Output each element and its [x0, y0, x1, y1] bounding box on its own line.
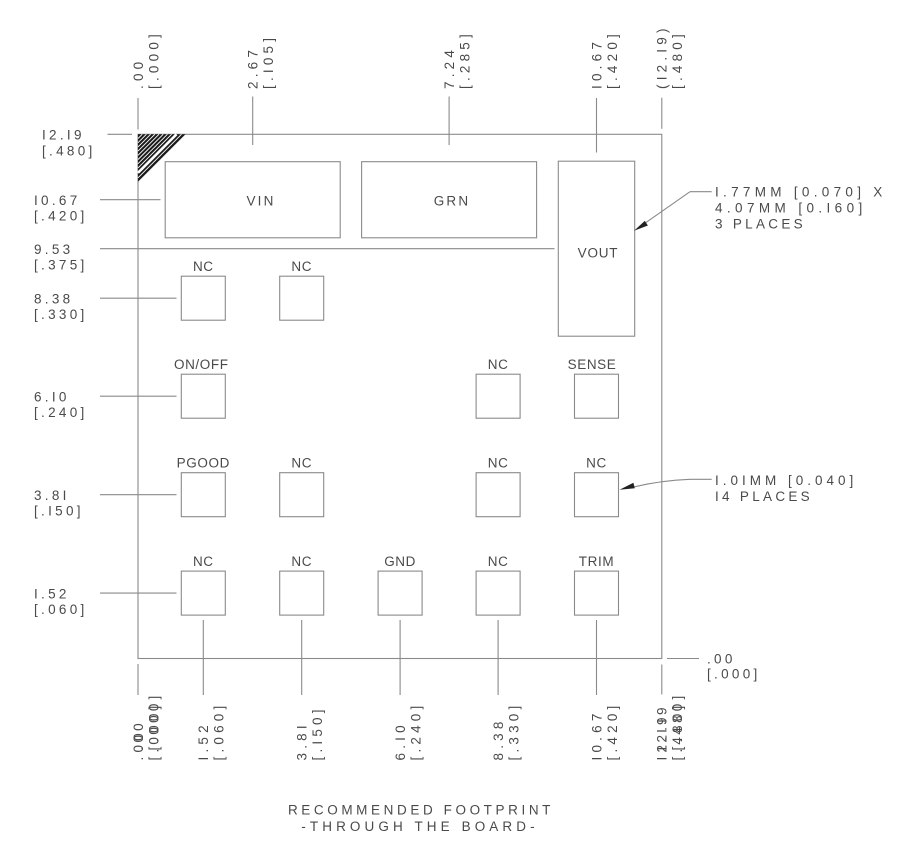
- svg-text:[.330]: [.330]: [506, 702, 521, 761]
- pad TRIM at (10.67,1.52) mm: [575, 571, 619, 615]
- svg-text:8.38: 8.38: [34, 292, 73, 307]
- svg-text:[.240]: [.240]: [408, 702, 423, 761]
- pad NC at (3.81,1.52) mm: [280, 571, 324, 615]
- svg-text:ON/OFF: ON/OFF: [174, 357, 229, 372]
- pad VIN (slot 4.07x1.77): [165, 162, 340, 238]
- pad NC at (10.67,3.81) mm: [575, 473, 619, 517]
- svg-text:SENSE: SENSE: [568, 357, 617, 372]
- svg-text:[.420]: [.420]: [34, 209, 88, 224]
- top extension tick x=2.67: [252, 97, 254, 146]
- svg-text:NC: NC: [291, 554, 312, 569]
- svg-text:I.0IMM [0.040]: I.0IMM [0.040]: [715, 473, 857, 488]
- leader arrow to VOUT slot: [634, 192, 712, 231]
- svg-text:-THROUGH THE BOARD-: -THROUGH THE BOARD-: [301, 819, 538, 834]
- svg-text:6.I0: 6.I0: [393, 721, 408, 760]
- svg-text:.00: .00: [131, 719, 146, 750]
- svg-text:NC: NC: [488, 554, 509, 569]
- svg-text:2.67: 2.67: [246, 46, 261, 89]
- svg-text:9.53: 9.53: [34, 242, 73, 257]
- svg-text:.00: .00: [707, 651, 736, 666]
- pin-1 hatched triangle marker: [138, 134, 186, 182]
- dimension line y=0 right: [667, 658, 699, 660]
- dimension line y=8.38mm: [100, 297, 177, 299]
- bottom tick x=0: [137, 664, 139, 695]
- svg-text:[.060]: [.060]: [34, 602, 88, 617]
- svg-text:NC: NC: [291, 259, 312, 274]
- svg-text:I2.I9: I2.I9: [42, 128, 85, 143]
- svg-text:[.375]: [.375]: [34, 258, 88, 273]
- svg-text:VIN: VIN: [246, 193, 275, 208]
- pad NC at (1.52,8.38) mm: [181, 276, 225, 320]
- top extension tick x=10.67: [596, 98, 598, 153]
- svg-text:[.420]: [.420]: [605, 30, 620, 89]
- svg-text:[.000]: [.000]: [146, 692, 161, 751]
- dimension line y=10.67mm: [100, 199, 161, 201]
- svg-text:VOUT: VOUT: [578, 246, 619, 261]
- dimension line y=1.52mm: [100, 592, 177, 594]
- svg-text:[.480]: [.480]: [670, 30, 685, 89]
- svg-text:[.I05]: [.I05]: [261, 34, 276, 89]
- svg-text:3 PLACES: 3 PLACES: [715, 216, 806, 231]
- board outline / footprint frame: [138, 134, 662, 658]
- svg-text:NC: NC: [193, 554, 214, 569]
- pad NC at (8.38,3.81) mm: [476, 473, 520, 517]
- dimension line y=12.19mm: [108, 133, 133, 135]
- pad ON/OFF at (1.52,6.1) mm: [181, 374, 225, 418]
- svg-text:NC: NC: [586, 456, 607, 471]
- pad PGOOD at (1.52,3.81) mm: [181, 473, 225, 517]
- svg-text:[.240]: [.240]: [34, 405, 88, 420]
- svg-text:[.000]: [.000]: [707, 667, 761, 682]
- svg-text:[.285]: [.285]: [457, 30, 472, 89]
- svg-text:[.I50]: [.I50]: [310, 705, 325, 760]
- pad NC at (3.81,8.38) mm: [280, 276, 324, 320]
- bottom leader x=8.38mm: [497, 620, 499, 695]
- svg-text:[.330]: [.330]: [34, 307, 88, 322]
- svg-text:NC: NC: [193, 259, 214, 274]
- svg-text:I0.67: I0.67: [34, 193, 81, 208]
- svg-text:[.480]: [.480]: [670, 692, 685, 751]
- svg-text:[.000]: [.000]: [146, 30, 161, 89]
- pad GRN (slot 4.07x1.77): [362, 162, 537, 238]
- svg-text:.00: .00: [131, 58, 146, 89]
- svg-text:I0.67: I0.67: [589, 709, 604, 760]
- svg-text:[.420]: [.420]: [605, 702, 620, 761]
- pad GND at (6.1,1.52) mm: [378, 571, 422, 615]
- svg-text:I.77MM [0.070] X: I.77MM [0.070] X: [715, 185, 887, 200]
- svg-text:[.060]: [.060]: [212, 702, 227, 761]
- pad SENSE at (10.67,6.1) mm: [575, 374, 619, 418]
- pad NC at (8.38,6.1) mm: [476, 374, 520, 418]
- pad NC at (8.38,1.52) mm: [476, 571, 520, 615]
- svg-text:I2.I9: I2.I9: [655, 703, 670, 750]
- dimension line y=9.53mm: [100, 248, 555, 250]
- svg-text:(I2.I9): (I2.I9): [655, 24, 670, 89]
- svg-text:RECOMMENDED FOOTPRINT: RECOMMENDED FOOTPRINT: [288, 803, 554, 818]
- top extension tick x=7.24: [448, 97, 450, 146]
- svg-text:3.8I: 3.8I: [34, 488, 70, 503]
- svg-text:NC: NC: [488, 456, 509, 471]
- svg-text:I0.67: I0.67: [589, 38, 604, 89]
- svg-text:I.52: I.52: [196, 721, 211, 760]
- svg-text:7.24: 7.24: [442, 46, 457, 89]
- svg-text:I4 PLACES: I4 PLACES: [715, 489, 813, 504]
- svg-text:[.I50]: [.I50]: [34, 504, 84, 519]
- bottom leader x=6.1mm: [399, 620, 401, 695]
- pad VOUT (slot 1.77x4.07): [558, 161, 634, 336]
- bottom leader x=3.81mm: [301, 620, 303, 695]
- svg-text:PGOOD: PGOOD: [177, 456, 230, 471]
- dimension line y=3.81mm: [100, 494, 177, 496]
- svg-text:3.8I: 3.8I: [295, 721, 310, 760]
- top extension tick x=(12.19): [661, 98, 663, 129]
- bottom leader x=10.67mm: [596, 620, 598, 695]
- svg-text:I.52: I.52: [34, 586, 70, 601]
- pad NC at (3.81,3.81) mm: [280, 473, 324, 517]
- dimension line y=6.10mm: [100, 395, 177, 397]
- svg-text:8.38: 8.38: [491, 717, 506, 760]
- bottom leader x=1.52mm: [202, 620, 204, 695]
- pad NC at (1.52,1.52) mm: [181, 571, 225, 615]
- svg-text:GRN: GRN: [434, 193, 471, 208]
- leader arrow to NC pad hole: [620, 479, 712, 490]
- svg-text:NC: NC: [488, 357, 509, 372]
- svg-text:[.480]: [.480]: [42, 143, 96, 158]
- bottom tick x=12.19: [661, 665, 663, 695]
- svg-text:NC: NC: [291, 456, 312, 471]
- top extension tick x=.00: [137, 98, 139, 130]
- svg-text:6.I0: 6.I0: [34, 390, 70, 405]
- svg-text:4.07MM [0.I60]: 4.07MM [0.I60]: [715, 201, 867, 216]
- svg-text:TRIM: TRIM: [579, 554, 614, 569]
- svg-text:GND: GND: [384, 554, 416, 569]
